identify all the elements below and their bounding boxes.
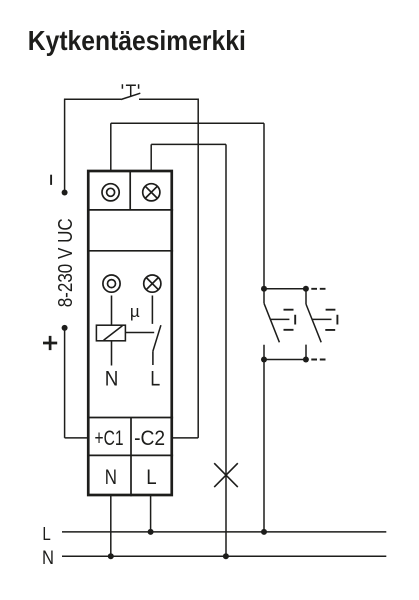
svg-text:N: N [42,548,54,569]
svg-text:N: N [105,367,119,391]
svg-text:+C1: +C1 [95,426,124,450]
svg-text:N: N [105,465,117,489]
svg-text:-C2: -C2 [134,426,165,450]
svg-text:8-230 V UC: 8-230 V UC [55,218,77,307]
svg-text:µ: µ [130,302,140,321]
svg-text:L: L [150,367,160,391]
svg-text:Kytkentäesimerkki: Kytkentäesimerkki [28,25,246,56]
svg-text:L: L [42,523,50,544]
svg-text:L: L [146,465,156,489]
